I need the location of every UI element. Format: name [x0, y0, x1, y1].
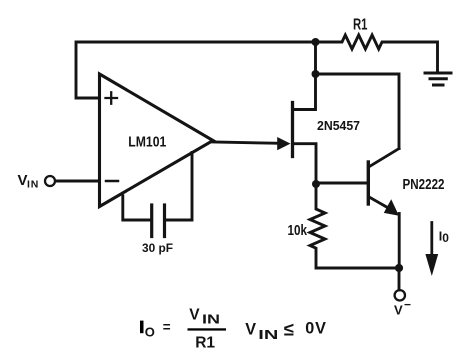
- svg-text:V: V: [245, 320, 256, 338]
- svg-text:IN: IN: [202, 313, 220, 327]
- svg-text:O: O: [145, 324, 155, 339]
- svg-text:LM101: LM101: [128, 135, 166, 151]
- svg-text:R1: R1: [195, 335, 215, 352]
- svg-text:30 pF: 30 pF: [142, 241, 173, 255]
- svg-text:10k: 10k: [288, 223, 308, 239]
- svg-text:V: V: [394, 303, 403, 318]
- svg-text:0V: 0V: [305, 319, 326, 337]
- svg-text:−: −: [404, 298, 411, 312]
- svg-text:IN: IN: [27, 178, 39, 190]
- svg-text:PN2222: PN2222: [403, 176, 445, 193]
- svg-text:R1: R1: [353, 16, 368, 33]
- svg-text:≤: ≤: [284, 319, 294, 340]
- svg-text:V: V: [18, 172, 28, 189]
- svg-text:2N5457: 2N5457: [317, 118, 360, 133]
- svg-text:0: 0: [442, 231, 449, 245]
- svg-text:=: =: [163, 320, 171, 335]
- svg-text:IN: IN: [258, 328, 278, 342]
- svg-text:V: V: [189, 307, 200, 324]
